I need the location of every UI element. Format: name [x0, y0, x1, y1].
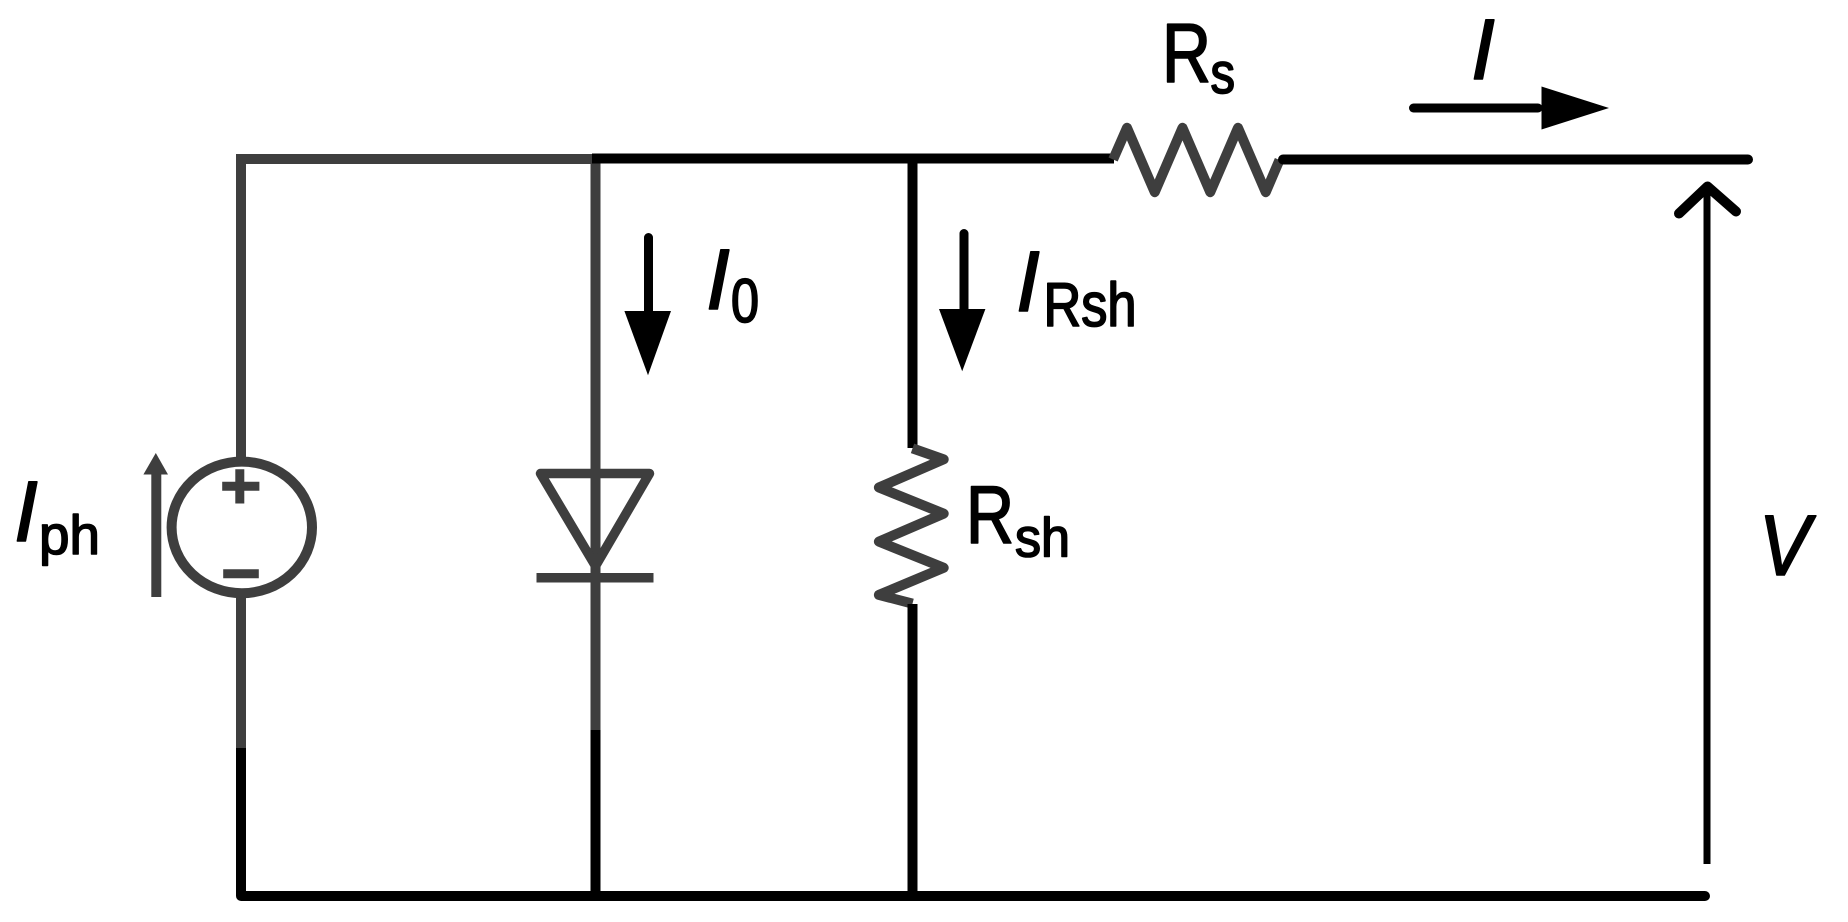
arrow I0 shaft [644, 238, 653, 316]
wire: diode branch vertical black lower [591, 730, 601, 896]
wire: top-left gray wire and left vertical upper segment [241, 159, 597, 461]
wire: shunt branch lower black [908, 604, 918, 896]
arrow Iph shaft [151, 472, 161, 597]
wire: top black wire from diode node to series resistor [592, 154, 1114, 164]
label Iph [17, 482, 37, 541]
arrow I0 head [624, 311, 671, 375]
arrow I head [1542, 87, 1610, 130]
arrow I shaft [1414, 104, 1539, 113]
label Rs [1168, 24, 1208, 82]
arrow V shaft [1704, 192, 1711, 864]
resistor Rs zigzag [1113, 128, 1279, 192]
label Rsh [972, 487, 1011, 543]
diode D1 cathode bar [537, 573, 654, 583]
label I0 [709, 250, 729, 309]
current source plus sign [222, 469, 259, 503]
diode D1 triangle [541, 474, 650, 567]
current source minus sign [223, 569, 259, 578]
resistor Rsh zigzag [879, 448, 944, 603]
label IRsh [1019, 252, 1039, 311]
wire: top black wire from series resistor to right end [1283, 155, 1748, 165]
arrow V chevron head [1679, 187, 1736, 214]
arrow IRsh head [939, 309, 985, 371]
arrow Iph head [143, 453, 168, 475]
wire: diode branch vertical gray [591, 159, 601, 730]
current source U1 ellipse [172, 462, 312, 594]
wire: shunt branch upper black [908, 159, 918, 448]
wire: bottom black wire [241, 891, 1705, 901]
label I [1474, 20, 1494, 79]
arrow IRsh shaft [960, 234, 969, 314]
label V [1766, 516, 1816, 575]
wire: left vertical lower black segment [236, 748, 246, 896]
wire: left vertical below current source (gray part) [236, 594, 246, 748]
